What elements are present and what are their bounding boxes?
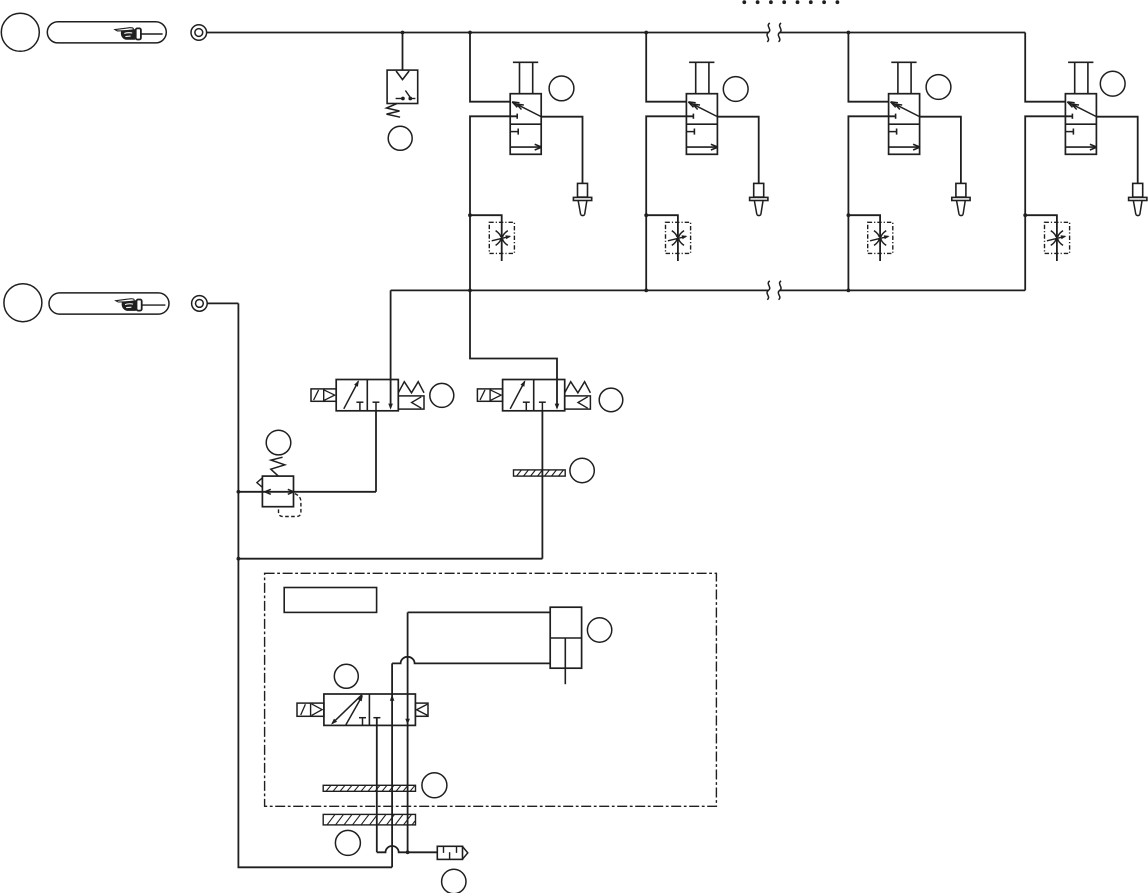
- unit 4: wire to speed controller: [1025, 215, 1057, 261]
- unit 4: 3-port valve body V4: [1065, 94, 1096, 155]
- mounting plate 2 (hatched bar, below enclosure): [323, 814, 415, 825]
- unit 1: 3-port valve body V1: [510, 94, 541, 155]
- solenoid pilot of valve E: [297, 703, 324, 716]
- unit 1: wire supply drop to valve: [470, 33, 510, 102]
- balloon label circle at valve E: [334, 664, 358, 688]
- wire: valve B output down to supply tee: [541, 411, 543, 559]
- unit 1: valve V1 push plunger: [513, 61, 538, 63]
- unit 1: valve V1 blocked port (position 2): [510, 131, 518, 133]
- unit 4: speed controller SC4 (throttle with dashed box): [1045, 222, 1070, 253]
- unit 4: balloon label circle at valve V4: [1100, 71, 1125, 96]
- unit 2: balloon label circle at valve V2: [723, 77, 748, 102]
- unit 2: vacuum pad PAD2: [750, 183, 768, 215]
- unit 3: valve V3 push plunger: [891, 61, 916, 63]
- valve B flow diagonal with arrow: [510, 381, 525, 408]
- balloon label circle at cylinder: [587, 618, 611, 642]
- solenoid pilot of valve B: [477, 389, 502, 401]
- valve E blocked port (left box): [359, 717, 366, 719]
- wire: top vacuum rail (right segment): [780, 32, 1025, 34]
- valve A blocked port (right box): [373, 401, 380, 403]
- manual switch stadium 2: [49, 293, 169, 314]
- unit 4: valve V4 pass-through arrow (position 2): [1065, 146, 1096, 148]
- dotted continuation marks (more stations): [742, 0, 839, 4]
- air cylinder piston rod: [564, 638, 566, 684]
- valve A pilot-return box: [398, 396, 424, 409]
- valve B blocked port (left box): [523, 401, 530, 403]
- valve A return spring: [398, 382, 424, 393]
- regulator relief triangle: [257, 478, 263, 488]
- regulator adjusting spring: [271, 457, 285, 476]
- valve B return spring: [565, 382, 591, 393]
- unit 2: valve V2 flow diagonal with arrow (position 1): [688, 102, 717, 117]
- unit 4: valve V4 push plunger: [1068, 61, 1093, 63]
- hand icon (manual operation) 1: [115, 28, 141, 40]
- unit 4: vacuum pad PAD4: [1129, 183, 1147, 215]
- unit 3: valve V3 blocked port (position 1): [895, 114, 897, 119]
- unit 1: junction dot at speed controller branch: [468, 213, 472, 217]
- regulator R body: [262, 476, 293, 507]
- unit 2: valve V2 blocked port (position 2): [686, 131, 694, 133]
- balloon label circle at silencer: [442, 869, 466, 893]
- unit 3: 3-port valve body V3: [889, 94, 920, 155]
- wire: lower rail (left segment): [391, 289, 769, 291]
- unit 4: wire port line to lower rail: [1025, 116, 1072, 290]
- unit 3: valve V3 blocked port (position 2): [889, 131, 897, 133]
- unit 3: junction dot at speed controller branch: [847, 213, 851, 217]
- manual switch stadium 1: [47, 22, 166, 43]
- unit 3: valve V3 pass-through arrow (position 2): [889, 146, 920, 148]
- unit 1: valve V1 pass-through arrow (position 2): [510, 146, 541, 148]
- unit 2: valve V2 push plunger: [689, 61, 714, 63]
- unit 2: valve V2 pass-through arrow (position 2): [686, 146, 717, 148]
- regulator flow arrows: [265, 489, 294, 494]
- port (double circle) P2: [192, 296, 208, 312]
- pressure switch actuator V notch: [396, 71, 409, 80]
- pressure switch contact: [396, 91, 416, 101]
- pressure switch spring: [387, 104, 401, 118]
- unit 2: wire port line to lower rail: [646, 116, 693, 290]
- unit 4: wire supply drop to valve: [1025, 33, 1065, 102]
- unit 4: valve V4 blocked port (position 1): [1071, 114, 1073, 119]
- unit 1: balloon label circle at valve V1: [549, 76, 574, 101]
- unit 4: wire valve to vacuum pad: [1096, 117, 1137, 184]
- solenoid pilot of valve A: [311, 389, 336, 401]
- balloon label circle at plate under valve B: [570, 458, 594, 482]
- balloon label circle at plate 1: [422, 773, 447, 798]
- valve A blocked port (left box): [356, 401, 363, 403]
- unit 2: wire to speed controller: [646, 215, 678, 261]
- valve E pilot-return box: [415, 703, 428, 716]
- junction dot at exhaust line: [406, 850, 410, 854]
- air cylinder CYL body: [550, 607, 581, 668]
- wire: cylinder-top vertical through valve E down to exhaust (down arrow inside): [407, 612, 409, 852]
- balloon label circle at pressure switch: [388, 126, 412, 150]
- junction dots on top rail: [401, 31, 405, 35]
- balloon label circle at regulator: [266, 430, 291, 455]
- wire from hand to stadium edge 1: [141, 33, 163, 35]
- silencer SIL (exhaust): [437, 846, 468, 859]
- unit 3: balloon label circle at valve V3: [926, 75, 951, 100]
- unit 4: junction dot at speed controller branch: [1023, 213, 1027, 217]
- unit 2: 3-port valve body V2: [686, 94, 717, 155]
- unit 1: wire to speed controller: [470, 215, 502, 261]
- wire: supply branch to valve B (horizontal): [238, 558, 542, 560]
- valve B body (2-position): [503, 380, 565, 411]
- unit 2: speed controller SC2 (throttle with dashed box): [666, 222, 691, 253]
- valve A flow diagonal with arrow: [344, 381, 359, 408]
- enclosure dash-dot border: [265, 573, 717, 806]
- unit 1: vacuum pad PAD1: [573, 183, 591, 215]
- break mark S-curves on lower rail: [767, 281, 770, 300]
- regulator pilot dashed line: [279, 494, 301, 517]
- wire: supply vertical through valve E (up arrow inside): [391, 663, 393, 867]
- balloon label circle 2 (left, row 2): [4, 284, 42, 322]
- junction dots on lower rail: [468, 289, 472, 293]
- balloon label circle at valve A: [430, 383, 454, 407]
- unit 1: valve V1 flow diagonal with arrow (position 1): [512, 102, 541, 117]
- unit 1: valve V1 blocked port (position 1): [516, 114, 518, 119]
- valve B pilot-return box: [565, 396, 591, 409]
- unit 3: wire port line to lower rail: [848, 116, 895, 290]
- unit 3: speed controller SC3 (throttle with dashed box): [868, 222, 893, 253]
- valve E crossed flow diagonals with arrows: [331, 695, 363, 725]
- break mark S-curves on top rail: [767, 23, 770, 42]
- wire: top vacuum rail (left segment): [207, 32, 769, 34]
- wire: regulator through-line: [238, 491, 376, 493]
- unit 2: wire valve to vacuum pad: [717, 117, 758, 184]
- wire: lower rail branch down-over to valve B (down arrow): [470, 290, 557, 407]
- junction dot on main supply at regulator line: [237, 490, 241, 494]
- unit 1: wire port line to lower rail: [470, 116, 517, 290]
- unit 2: wire supply drop to valve: [646, 33, 686, 102]
- mounting plate (hatched bar) under valve B: [514, 470, 566, 476]
- wire: valve A output down to regulator line: [375, 411, 377, 492]
- name plate box in enclosure: [284, 588, 376, 613]
- balloon label circle 1 (top-left): [1, 13, 39, 51]
- wire: main supply line (left vertical): [238, 303, 392, 867]
- wire: cylinder bottom port line with crossover hop: [392, 657, 550, 664]
- unit 2: valve V2 blocked port (position 1): [692, 114, 694, 119]
- wire: cylinder top port line: [408, 611, 551, 613]
- unit 3: wire to speed controller: [848, 215, 880, 261]
- wire: lower rail (right segment): [780, 289, 1025, 291]
- valve A body (2-position): [336, 380, 398, 411]
- wire: port P2 to main supply drop: [207, 302, 238, 304]
- unit 1: speed controller SC1 (throttle with dashed box): [489, 222, 514, 253]
- unit 4: valve V4 blocked port (position 2): [1065, 131, 1073, 133]
- unit 3: wire valve to vacuum pad: [920, 117, 961, 184]
- unit 3: valve V3 flow diagonal with arrow (position 1): [891, 102, 920, 117]
- wire: lower rail into valve A (down arrow): [390, 290, 392, 407]
- pressure switch PS body: [387, 70, 418, 103]
- valve E body (2-position): [324, 694, 416, 725]
- mounting plate 1 (hatched bar, in enclosure): [323, 785, 415, 791]
- valve E blocked port (right box): [373, 717, 380, 719]
- wire: valve E exhaust port down with crossover hop to junction: [377, 718, 438, 853]
- valve B blocked port (right box): [539, 401, 546, 403]
- wire: drop to pressure switch: [402, 33, 404, 71]
- junction dot on main supply at valve B branch: [237, 557, 241, 561]
- wire from hand to stadium edge 2: [142, 304, 166, 306]
- unit 2: junction dot at speed controller branch: [644, 213, 648, 217]
- unit 3: wire supply drop to valve: [848, 33, 888, 102]
- unit 1: wire valve to vacuum pad: [541, 117, 582, 184]
- hand icon (manual operation) 2: [116, 299, 142, 311]
- balloon label circle at plate 2: [335, 830, 360, 855]
- port (double circle) P1: [191, 25, 207, 41]
- unit 3: vacuum pad PAD3: [952, 183, 970, 215]
- balloon label circle at valve B: [599, 388, 623, 412]
- unit 4: valve V4 flow diagonal with arrow (position 1): [1067, 102, 1096, 117]
